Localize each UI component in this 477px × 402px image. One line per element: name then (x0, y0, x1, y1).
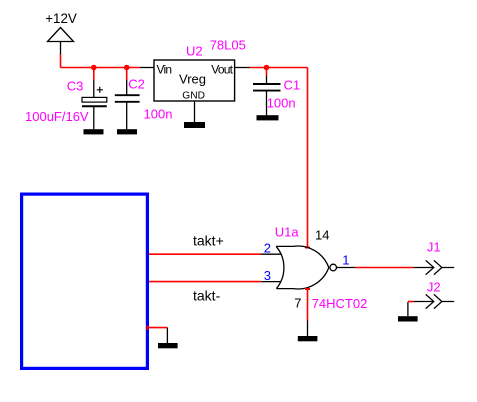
wire Vout to corner (250, 67, 308, 69)
svg-text:Vin: Vin (157, 63, 172, 77)
ground C3 (84, 129, 104, 134)
wire down to gate pin 14 (307, 68, 309, 249)
wire gate pin7 to ground (305, 288, 310, 321)
svg-text:J1: J1 (427, 240, 441, 255)
svg-text:U1a: U1a (275, 225, 300, 240)
svg-text:100uF/16V: 100uF/16V (25, 109, 89, 124)
ground U2 (184, 122, 205, 128)
pin14 end tick (305, 247, 310, 249)
wire takt- (149, 281, 261, 283)
wire takt+ (149, 253, 261, 255)
ground C1 (257, 115, 279, 120)
svg-text:7: 7 (294, 296, 301, 311)
junction dot at C1 (264, 65, 270, 71)
ground U1 (298, 336, 318, 341)
ground pin U1 (307, 321, 309, 337)
blue module box (22, 194, 148, 368)
voltage regulator U2 (140, 60, 250, 122)
svg-text:2: 2 (264, 241, 271, 256)
capacitor C3 (82, 68, 107, 130)
svg-text:U2: U2 (186, 43, 203, 58)
ground J2 (398, 316, 418, 321)
svg-text:3: 3 (264, 268, 271, 283)
svg-text:78L05: 78L05 (210, 38, 246, 53)
svg-text:14: 14 (315, 227, 329, 242)
wire 12V rail to Vin (61, 67, 141, 69)
ground box (158, 343, 178, 348)
svg-text:C1: C1 (284, 78, 301, 93)
connector J2 (414, 294, 454, 308)
junction dot at C3 (91, 65, 97, 71)
svg-text:takt-: takt- (193, 287, 221, 303)
wire J2 ground stub (408, 301, 414, 303)
svg-text:1: 1 (342, 253, 349, 268)
svg-text:Vout: Vout (211, 63, 233, 77)
svg-text:J2: J2 (427, 280, 441, 295)
ground pin box (166, 328, 168, 343)
svg-text:Vreg: Vreg (179, 72, 206, 87)
svg-text:GND: GND (182, 91, 205, 102)
svg-text:100n: 100n (267, 96, 296, 111)
svg-text:C3: C3 (67, 79, 84, 94)
connector J1 (414, 260, 455, 274)
svg-text:C2: C2 (128, 76, 145, 91)
wire +12V down to rail (60, 55, 62, 68)
capacitor C1 (253, 68, 281, 116)
wire gate output to J1 (355, 267, 414, 269)
junction dot at C2 (124, 65, 130, 71)
wire box ground stub (147, 326, 168, 331)
nor gate U1a (261, 246, 355, 289)
supply symbol +12V (48, 28, 74, 55)
svg-text:100n: 100n (144, 107, 173, 122)
ground C2 (117, 129, 137, 134)
svg-text:takt+: takt+ (193, 232, 224, 248)
svg-text:+12V: +12V (45, 11, 77, 26)
svg-text:74HCT02: 74HCT02 (312, 296, 368, 311)
ground pin J2 (407, 302, 409, 316)
capacitor C2 (115, 68, 140, 130)
